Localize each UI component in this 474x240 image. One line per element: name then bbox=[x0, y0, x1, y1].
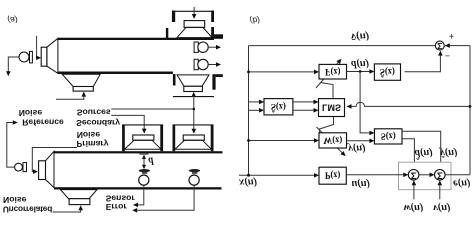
svg-text:w(n): w(n) bbox=[404, 202, 424, 213]
error microphone 2 capsule (top duct) bbox=[194, 59, 198, 69]
svg-text:(a): (a) bbox=[7, 15, 18, 25]
ceiling speaker 1 feed arrow bbox=[142, 129, 147, 134]
wire - top feedback wire from summer to left bus bbox=[249, 45, 436, 47]
upper branch right foot ledge (thick) bbox=[214, 34, 223, 39]
lower branch speaker driver bbox=[184, 86, 203, 91]
svg-text:Noise: Noise bbox=[3, 195, 27, 205]
wire - right e(n) vertical bus bbox=[469, 46, 471, 175]
summer sigma 2 bbox=[435, 170, 446, 181]
label d bbox=[148, 154, 154, 165]
svg-text:Ŝ(z): Ŝ(z) bbox=[380, 67, 395, 77]
label x(n) bbox=[238, 176, 257, 187]
label Reference Noise - line Reference bbox=[22, 117, 64, 127]
label v(n) bbox=[433, 202, 451, 213]
lower branch speaker feed arrow bbox=[191, 92, 196, 97]
upper branch right lower wall piece (thick) bbox=[211, 27, 214, 39]
primary noise leader wire into bottom-left source speaker bbox=[32, 148, 77, 172]
ceiling enclosure 1 right wall bbox=[160, 125, 163, 152]
adaptive arrow through W(z) bbox=[317, 127, 343, 153]
wire - bus into F(z) bbox=[249, 71, 315, 73]
block P(z) bbox=[319, 167, 346, 184]
label Uncorrelated Noise - line Noise bbox=[3, 195, 27, 205]
label Uncorrelated Noise - line Uncorrelated bbox=[3, 204, 52, 214]
wire - bus into W(z) bbox=[249, 140, 315, 142]
minus sign at top summer bbox=[445, 51, 450, 61]
svg-text:−: − bbox=[445, 51, 450, 61]
reference mic wire to label (bottom duct) bbox=[7, 123, 15, 168]
arrow pointing to Reference label bbox=[13, 120, 18, 125]
block F(z) bbox=[319, 64, 347, 79]
lower branch right foot ledge (thick) bbox=[216, 74, 223, 77]
label d(n) on F output wire bbox=[351, 58, 369, 69]
svg-text:v(n): v(n) bbox=[433, 202, 451, 213]
ceiling speaker 2 feed wire bbox=[193, 109, 195, 129]
svg-text:Σ: Σ bbox=[437, 41, 442, 51]
upper branch right wall (thick) bbox=[211, 11, 214, 23]
wire - e(n) into LMS right side with hop bbox=[351, 102, 470, 106]
panel label (a) bbox=[7, 15, 18, 25]
label Secondary Sources - line Sources bbox=[77, 108, 111, 118]
upper branch speaker feed wire bbox=[193, 7, 195, 15]
svg-text:Uncorrelated: Uncorrelated bbox=[3, 204, 52, 214]
svg-text:v̄(n): v̄(n) bbox=[351, 30, 369, 42]
wire - bus into S-hat1 lower input bbox=[249, 109, 260, 111]
upper branch top wall (thin) bbox=[172, 10, 214, 12]
label v-hat(n) on top wire bbox=[351, 30, 369, 42]
label Reference Noise - line Noise bbox=[19, 108, 43, 118]
label Primary Noise - line Noise bbox=[77, 130, 101, 140]
block S(z) bbox=[374, 129, 402, 144]
error mic 1 signal wire to Error Sensor label bbox=[137, 185, 144, 205]
error microphone 1 capsule (top duct) bbox=[194, 42, 198, 52]
svg-text:Noise: Noise bbox=[77, 130, 101, 140]
wire - e(n) output of summer 2 to right bus bbox=[445, 174, 470, 176]
bottom duct upper wall bbox=[54, 151, 223, 153]
svg-text:Secondary: Secondary bbox=[76, 118, 120, 128]
error mic 2 output arrow bbox=[208, 64, 217, 66]
wire - S(z) output 1 drop into summer 2 bbox=[402, 131, 441, 164]
bottom-left source loudspeaker cone bbox=[46, 151, 55, 187]
secondary sources feed wire B to ceiling speaker 1 bbox=[111, 115, 144, 129]
floor error mic 2 body bbox=[189, 175, 199, 185]
lower branch bottom wall (thin) bbox=[173, 96, 214, 98]
wire - e(n) feedback into top summer right side bbox=[445, 45, 470, 47]
block LMS bbox=[319, 99, 345, 117]
floor error mic 1 cap bbox=[139, 169, 150, 172]
label y(n) on W output wire bbox=[346, 143, 366, 154]
ceiling speaker 1 driver bbox=[133, 135, 154, 140]
block S-hat(z) number 2 bbox=[374, 64, 400, 80]
svg-text:W(z): W(z) bbox=[323, 135, 342, 145]
svg-text:LMS: LMS bbox=[322, 103, 341, 113]
error microphone 2 (top duct) bbox=[198, 59, 208, 69]
reference microphone (bottom duct) bbox=[15, 163, 23, 171]
wire - LMS update to W(z) zigzag bbox=[320, 117, 334, 133]
reference mic capsule bbox=[30, 51, 33, 63]
svg-text:Reference: Reference bbox=[22, 117, 64, 127]
wire - LMS update to F(z) zigzag bbox=[320, 83, 333, 99]
svg-text:Σ: Σ bbox=[437, 170, 443, 181]
wire - W(z) output y(n) into S(z) lower input bbox=[347, 140, 371, 142]
block W(z) bbox=[319, 133, 347, 148]
plus sign at top summer bbox=[449, 31, 454, 41]
block S-hat(z) number 1 bbox=[264, 99, 293, 115]
uncorrelated noise loudspeaker cone (firing up) bbox=[61, 190, 98, 199]
svg-text:Ŝ(z): Ŝ(z) bbox=[271, 102, 286, 112]
lower branch left wall (thick) bbox=[173, 74, 176, 86]
wire - left x(n) bus vertical bbox=[248, 46, 250, 176]
ceiling speaker 2 driver bbox=[183, 135, 204, 140]
junction dot bus/F wire bbox=[247, 71, 250, 74]
upper branch speaker cone (firing down) bbox=[177, 27, 212, 37]
reference mic signal wire with down arrow bbox=[8, 57, 19, 72]
svg-text:S(z): S(z) bbox=[381, 131, 396, 141]
uncorrelated noise speaker feed wire bbox=[53, 210, 81, 213]
ceiling enclosure 2 right wall bbox=[211, 125, 214, 152]
junction dot F output / S(z) branch bbox=[359, 70, 362, 73]
reference mic capsule (bottom duct) bbox=[23, 163, 27, 172]
ceiling speaker 2 cone (firing down) bbox=[175, 140, 212, 149]
top-left source loudspeaker driver bbox=[41, 47, 47, 66]
top duct upper wall stub at branch inlet bbox=[166, 28, 168, 40]
reference microphone (top duct) bbox=[19, 52, 29, 62]
ceiling speaker 1 cone (firing down) bbox=[125, 140, 162, 149]
upper branch left wall (thick) bbox=[172, 11, 175, 23]
upper branch speaker driver bbox=[184, 21, 205, 28]
top duct lower wall bbox=[58, 72, 173, 75]
label Error Sensor - line Error bbox=[106, 202, 128, 212]
svg-text:x(n): x(n) bbox=[238, 176, 257, 187]
svg-text:(b): (b) bbox=[250, 16, 261, 26]
ceiling enclosure 2 left wall bbox=[173, 125, 176, 152]
label e(n) bbox=[453, 178, 471, 189]
wire - x(n) input into P(z) bbox=[239, 174, 315, 176]
wire - down from F output to S(z) upper input bbox=[360, 72, 370, 133]
wire - v(n) up into summer 2 bbox=[439, 185, 441, 200]
error mic 1 output arrow bbox=[208, 46, 217, 48]
junction dot e bus / LMS wire bbox=[469, 105, 472, 108]
label Primary Noise - line Primary bbox=[76, 139, 108, 149]
secondary sources feed wire A to right speakers column bbox=[111, 108, 194, 110]
label u(n) on P output bbox=[351, 178, 370, 189]
svg-text:Sources: Sources bbox=[77, 108, 111, 118]
label Error Sensor - line Sensor bbox=[106, 194, 136, 204]
ceiling enclosure 1 top (thin) bbox=[122, 124, 163, 126]
secondary loudspeaker below top duct - cone bbox=[62, 74, 100, 86]
label Secondary Sources - line Secondary bbox=[76, 118, 120, 128]
svg-text:Sensor: Sensor bbox=[106, 194, 136, 204]
wire - S-hat1 output 2 into LMS bbox=[293, 109, 314, 111]
junction dot bus/W wire bbox=[247, 139, 250, 142]
svg-text:e(n): e(n) bbox=[453, 178, 471, 189]
junction dot bus / x(n) wire bbox=[247, 174, 250, 177]
label d-hat(n) on drop into summer1 bbox=[415, 147, 433, 160]
wire - w(n) up into summer 1 bbox=[413, 185, 415, 200]
label y-hat(n) on drop into summer2 bbox=[438, 147, 458, 158]
ceiling enclosure 2 top (thin) bbox=[173, 124, 214, 126]
bottom-left source loudspeaker driver bbox=[39, 161, 46, 180]
summer sigma top-right bbox=[435, 41, 444, 50]
panel label (b) bbox=[250, 16, 261, 26]
floor error mic 2 cap bbox=[189, 169, 200, 172]
wire - summer1 to summer2 bbox=[419, 174, 430, 176]
svg-text:d̂(n): d̂(n) bbox=[415, 147, 433, 160]
uncorrelated noise loudspeaker driver bbox=[69, 199, 90, 205]
svg-text:P(z): P(z) bbox=[325, 171, 341, 181]
lower branch speaker cone (firing up) bbox=[177, 75, 209, 86]
distance d double arrow bbox=[143, 155, 145, 168]
svg-text:F(z): F(z) bbox=[325, 67, 341, 77]
svg-text:u(n): u(n) bbox=[351, 178, 370, 189]
svg-text:Error: Error bbox=[106, 202, 128, 212]
top duct upper wall bbox=[58, 38, 214, 40]
svg-text:+: + bbox=[449, 31, 454, 41]
svg-text:ŷ(n): ŷ(n) bbox=[438, 147, 458, 158]
label w(n) bbox=[404, 202, 424, 213]
acoustic summing junction enclosure (thin box) bbox=[399, 162, 452, 190]
adaptive arrow through F(z) bbox=[316, 62, 339, 88]
ceiling enclosure 1 left wall bbox=[122, 125, 125, 152]
summer sigma 1 bbox=[408, 170, 419, 181]
error mic 2 signal wire to Error Sensor label bbox=[136, 185, 194, 210]
top-left source loudspeaker cone bbox=[47, 38, 58, 73]
lower branch right wall (thick) bbox=[212, 74, 215, 90]
junction dot at feed wire A / speaker column bbox=[193, 108, 196, 111]
distance marker tick below duct wall bbox=[139, 153, 148, 155]
error microphone 1 (top duct) bbox=[198, 42, 208, 52]
wire - S-hat2 output up into top summer minus bbox=[405, 55, 441, 72]
primary noise feed wire into top-left source speaker bbox=[36, 36, 38, 58]
bottom duct lower wall bbox=[54, 187, 222, 189]
wire - bus into S-hat1 upper input bbox=[249, 101, 260, 103]
svg-text:d(n): d(n) bbox=[351, 58, 369, 69]
svg-text:Noise: Noise bbox=[19, 108, 43, 118]
svg-text:Primary: Primary bbox=[76, 139, 108, 149]
floor error mic 1 body bbox=[139, 175, 149, 185]
wire - S(z) output 2 drop into summer 1 bbox=[402, 139, 414, 164]
svg-text:Σ: Σ bbox=[411, 170, 417, 181]
wire - F(z) output to S-hat 2 bbox=[347, 71, 371, 73]
secondary loudspeaker below top duct - driver bbox=[73, 87, 93, 92]
wire - P(z) output d(n) into summer 1 bbox=[346, 174, 404, 176]
feed wire for lower-left secondary speaker bbox=[56, 96, 84, 99]
wire - S-hat1 output 1 into LMS bbox=[293, 101, 314, 103]
svg-text:y(n): y(n) bbox=[346, 143, 366, 154]
